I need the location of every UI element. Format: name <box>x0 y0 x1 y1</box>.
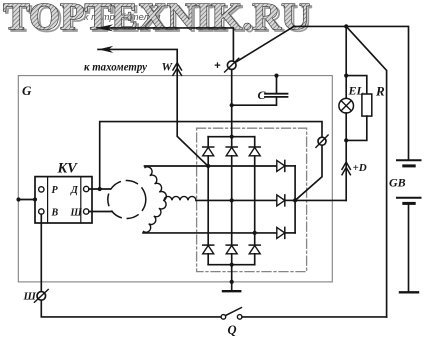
node: phase 3 to right column <box>253 231 257 235</box>
wire: KV В down to Ш connector <box>40 214 42 291</box>
svg-text:Q: Q <box>228 323 237 337</box>
node: EL/R top junction <box>344 74 348 78</box>
svg-text:Р: Р <box>52 185 59 196</box>
stator winding phase 1 (upper) <box>145 167 166 201</box>
diode VD7 (aux top) <box>277 160 295 171</box>
diode VD8 (aux middle) <box>277 195 295 206</box>
svg-text:GB: GB <box>389 176 406 190</box>
svg-text:W: W <box>162 60 174 74</box>
wire: diagonal to right side drop <box>346 26 386 317</box>
svg-text:EL: EL <box>348 84 364 98</box>
pin В <box>39 209 44 214</box>
resistor R branch bottom wire <box>346 116 367 140</box>
ground: battery chassis bar <box>400 291 418 293</box>
svg-text:TOPTEXNIK.RU: TOPTEXNIK.RU <box>3 0 310 38</box>
node: phase 2 to middle column <box>230 198 234 202</box>
svg-text:Д: Д <box>70 185 79 196</box>
wire: top battery line <box>294 26 409 159</box>
wire: KV Д to rotor brush <box>89 188 111 190</box>
generator case box G <box>18 76 332 282</box>
svg-text:C: C <box>258 88 267 102</box>
arrow W (double chevron up) <box>173 63 182 70</box>
diode VD3 (top right) <box>249 137 260 245</box>
node: case frame bottom <box>230 280 234 284</box>
bridge bottom bus <box>208 264 255 266</box>
wire: tachometer line with arrow <box>98 49 208 166</box>
svg-text:R: R <box>375 84 385 99</box>
ground: rectifier chassis bar <box>223 290 240 292</box>
diode VD9 (aux bottom) <box>277 227 295 238</box>
wire: down to +D horizontal <box>345 113 347 200</box>
diode VD4 (bottom left) <box>203 245 214 265</box>
wire: + terminal down to bridge top bus <box>231 70 233 137</box>
node: top bus centre <box>230 135 234 139</box>
svg-text:KV: KV <box>57 161 79 177</box>
node: battery line junction <box>344 24 348 28</box>
wire: lamp branch down from junction <box>345 26 347 98</box>
battery GB <box>397 159 421 161</box>
node: case frame left <box>16 197 20 201</box>
wire: Ш connector to ground bus <box>41 300 221 317</box>
node: aux output junction <box>293 198 297 202</box>
wire: case to KV <box>19 199 36 201</box>
node: capacitor tap on + wire <box>230 103 234 107</box>
node: KV box edge <box>33 197 37 201</box>
resistor R branch top wire <box>346 76 367 94</box>
terminal D: slashed circle <box>318 137 326 145</box>
node: phase 1 to left column <box>206 164 210 168</box>
node: EL/R bottom junction <box>344 138 348 142</box>
resistor R <box>362 94 372 116</box>
lamp EL <box>339 98 354 113</box>
arrow +D (double chevron up) <box>342 162 350 169</box>
wire: switch to battery branch <box>242 316 387 318</box>
svg-text:В: В <box>51 208 59 219</box>
svg-text:Ш: Ш <box>23 291 37 303</box>
pin P <box>39 187 44 192</box>
wire: diagonal + terminal to top battery line <box>235 26 294 62</box>
wire: diagonal to D terminal <box>295 145 322 200</box>
svg-text:к тахометру: к тахометру <box>84 60 148 74</box>
wire: KV Ш to rotor brush <box>89 211 112 213</box>
diode VD6 (bottom right) <box>249 245 260 265</box>
wire: aux diode output bus <box>294 166 296 233</box>
stator winding phase 3 (lower) <box>144 200 167 232</box>
svg-text:+D: +D <box>353 162 367 174</box>
switch Q <box>221 315 226 320</box>
wire: D terminal to field circuit <box>100 122 322 189</box>
svg-text:+: + <box>214 60 220 72</box>
terminal +: slashed circle <box>227 61 236 70</box>
node: bottom bus centre <box>230 263 234 267</box>
node: capacitor to case frame <box>274 74 278 78</box>
diode VD2 (top middle) <box>226 137 237 245</box>
connector Ш (bottom left) <box>37 292 46 301</box>
stator winding phase 2 (middle) <box>164 196 196 200</box>
wire: top consumers line with arrow <box>97 28 233 61</box>
wire: phase 3 line <box>143 232 277 234</box>
wire: phase 2 line <box>196 199 277 201</box>
rotor (dashed circle) <box>108 181 146 219</box>
diode VD1 (top left) <box>203 137 214 245</box>
regulator KV box <box>35 177 92 223</box>
wire: +D feed to lamp branch <box>295 199 346 201</box>
svg-text:Ш: Ш <box>70 208 83 219</box>
pin Ш <box>84 209 89 214</box>
node: field wire junction <box>98 187 102 191</box>
bridge top bus <box>208 136 255 138</box>
pin Д <box>84 186 89 191</box>
svg-text:G: G <box>22 83 32 98</box>
diode VD5 (bottom middle) <box>226 245 237 265</box>
rectifier dash-dot box <box>197 128 307 271</box>
wire: battery negative down <box>408 205 410 291</box>
wire: phase 1 line <box>145 165 277 167</box>
wire: bottom bus to case ground <box>231 265 233 290</box>
